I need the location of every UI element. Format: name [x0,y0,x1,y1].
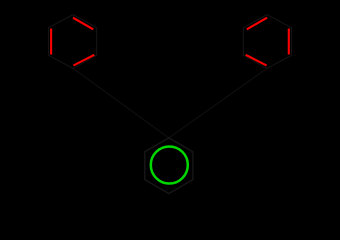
double bond inner line ring2 right [288,29,290,55]
double bond inner line ring2 top-left [247,18,267,30]
double bond inner line ring1 bottom-right [73,55,94,66]
double bond inner line ring2 bottom-left [246,55,267,66]
benzene ring 1 (top-left) outline [49,15,97,69]
benzene ring 3 (bottom-center) outline [145,138,193,194]
double bond inner line ring1 left [50,29,52,55]
double bond inner line ring1 top-right [73,18,93,30]
wire bond right-ring to bottom-ring [169,68,267,137]
wire bond left-ring to bottom-ring [73,68,169,137]
benzene ring 2 (top-right) outline [243,15,291,69]
aromatic circle ring3 (green) [151,147,188,184]
